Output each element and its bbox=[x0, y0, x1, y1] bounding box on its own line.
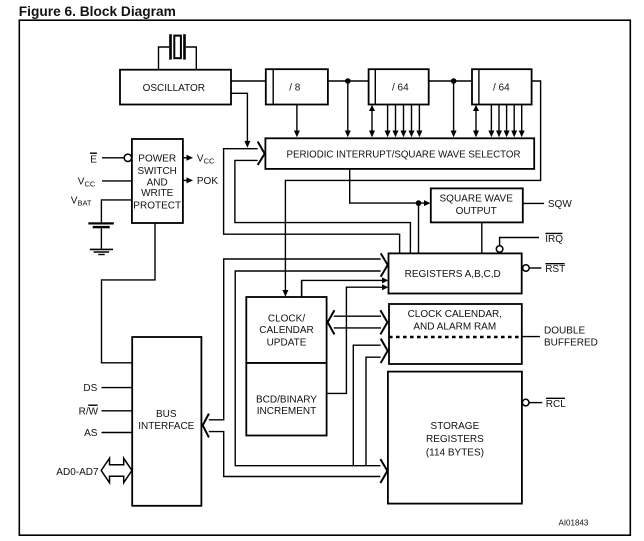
update to ram bidirectional arrows bbox=[328, 310, 335, 334]
svg-text:CLOCK/: CLOCK/ bbox=[268, 314, 305, 325]
svg-text:WRITE: WRITE bbox=[141, 188, 174, 199]
wire bcd increment to registers arrow 2 bbox=[327, 287, 384, 393]
crystal Y1 bbox=[169, 34, 186, 59]
svg-text:DS: DS bbox=[83, 383, 97, 394]
svg-text:CLOCK CALENDAR,: CLOCK CALENDAR, bbox=[408, 309, 502, 320]
wire node B drop to selector bbox=[453, 81, 455, 133]
oscillator box bbox=[120, 70, 231, 105]
svg-text:SWITCH: SWITCH bbox=[137, 166, 176, 177]
wire /64 first outputs to selector (5 lines) bbox=[385, 105, 423, 138]
wire into registers lower from bus interface bbox=[235, 271, 380, 466]
svg-text:AD0-AD7: AD0-AD7 bbox=[56, 467, 99, 478]
svg-text:RCL: RCL bbox=[546, 399, 566, 410]
svg-text:/ 64: / 64 bbox=[392, 83, 409, 94]
wire /64 second to selector wrap (right side, down, into clock/calendar update) bbox=[285, 81, 540, 293]
svg-text:PROTECT: PROTECT bbox=[133, 200, 181, 211]
battery B1 bbox=[88, 222, 113, 228]
wire /64 second outputs to selector (5 lines) bbox=[488, 105, 524, 138]
node junction dot B bbox=[451, 78, 457, 84]
wire /64 to /64 bbox=[429, 80, 472, 82]
power switch and write protect box U1 bbox=[132, 139, 183, 223]
svg-text:SQW: SQW bbox=[548, 199, 572, 210]
dashed line double buffer split bbox=[389, 336, 522, 338]
pin RST wire and circle bbox=[523, 265, 530, 272]
wire square wave output to registers bbox=[481, 222, 483, 253]
svg-text:AND ALARM RAM: AND ALARM RAM bbox=[413, 321, 496, 332]
svg-text:REGISTERS: REGISTERS bbox=[426, 434, 484, 445]
svg-text:DOUBLE: DOUBLE bbox=[544, 325, 585, 336]
pin POK output arrow bbox=[183, 179, 187, 181]
svg-text:PERIODIC INTERRUPT/SQUARE WAVE: PERIODIC INTERRUPT/SQUARE WAVE SELECTOR bbox=[287, 149, 521, 160]
wire VBAT to box bbox=[101, 200, 131, 222]
square wave output box bbox=[431, 188, 523, 222]
svg-text:OSCILLATOR: OSCILLATOR bbox=[143, 83, 205, 94]
svg-text:IRQ: IRQ bbox=[545, 234, 563, 245]
registers A,B,C,D box bbox=[389, 253, 522, 293]
wire crystal right to oscillator bbox=[186, 47, 197, 70]
svg-text:INCREMENT: INCREMENT bbox=[257, 406, 316, 417]
svg-text:AI01843: AI01843 bbox=[559, 519, 589, 528]
wire into ram lower from storage bus bbox=[353, 345, 380, 466]
node junction dot C bbox=[416, 200, 422, 206]
svg-text:E: E bbox=[90, 154, 97, 165]
clock calendar and alarm ram box bbox=[389, 304, 522, 364]
ram lower-left big chevron input bbox=[381, 339, 388, 363]
wire into selector lower / from registers bbox=[235, 160, 411, 253]
wire battery to ground bbox=[100, 228, 102, 249]
AD0-AD7 bidirectional bus arrow bbox=[101, 458, 132, 483]
svg-text:BUS: BUS bbox=[156, 409, 177, 420]
wire into registers upper from bus interface bbox=[209, 259, 381, 420]
svg-text:INTERFACE: INTERFACE bbox=[138, 421, 194, 432]
svg-text:AND: AND bbox=[147, 178, 168, 189]
wire power switch to bus interface bbox=[102, 223, 156, 363]
divider /64 box (first) bbox=[369, 69, 429, 104]
bcd/binary increment box bbox=[246, 363, 326, 436]
pin RCL wire and circle bbox=[522, 399, 529, 406]
ground bbox=[90, 249, 113, 254]
registers left input big chevron bbox=[381, 253, 388, 276]
wire registers to update (line into update top) bbox=[301, 280, 303, 297]
pin SQW bbox=[523, 202, 544, 204]
wire /64 first bidirectional arrow to selector bbox=[371, 109, 373, 134]
svg-text:OUTPUT: OUTPUT bbox=[456, 206, 497, 217]
svg-text:SQUARE WAVE: SQUARE WAVE bbox=[440, 194, 514, 205]
svg-text:RST: RST bbox=[545, 264, 565, 275]
svg-text:POK: POK bbox=[197, 176, 218, 187]
wire bus interface to storage lower bbox=[209, 432, 380, 477]
wire /64 second bidirectional arrow to selector bbox=[475, 109, 477, 134]
svg-text:UPDATE: UPDATE bbox=[267, 337, 307, 348]
svg-text:/ 64: / 64 bbox=[493, 83, 510, 94]
wire /8 output down to selector bbox=[296, 105, 298, 134]
selector left input big chevron bbox=[258, 142, 265, 165]
wire E to circle bbox=[102, 157, 124, 159]
divider /64 box (second) bbox=[472, 69, 532, 104]
node junction dot A bbox=[345, 78, 351, 84]
svg-text:CALENDAR: CALENDAR bbox=[259, 325, 313, 336]
wire into ram lower 2 from storage bus bbox=[366, 357, 381, 466]
wire /8 to /64 bbox=[328, 80, 369, 82]
wire update to registers arrow 1 bbox=[302, 280, 384, 297]
wire oscillator lower output down to selector input bbox=[231, 93, 247, 142]
pin IRQ wire and circle bbox=[500, 238, 539, 246]
periodic interrupt/square wave selector box bbox=[265, 138, 534, 169]
wire node C down to registers bbox=[418, 203, 420, 253]
svg-text:STORAGE: STORAGE bbox=[431, 421, 480, 432]
wire double buffered label bbox=[522, 336, 540, 338]
svg-text:Figure 6. Block Diagram: Figure 6. Block Diagram bbox=[19, 4, 176, 19]
svg-text:(114 BYTES): (114 BYTES) bbox=[426, 447, 484, 458]
wire VCC to box bbox=[102, 180, 132, 182]
wire crystal left to oscillator bbox=[159, 47, 170, 70]
inverter circle on E input bbox=[124, 154, 131, 161]
wire node A drop to selector bbox=[347, 81, 349, 133]
svg-text:REGISTERS A,B,C,D: REGISTERS A,B,C,D bbox=[405, 269, 501, 280]
storage registers box bbox=[388, 372, 522, 504]
svg-text:BUFFERED: BUFFERED bbox=[544, 338, 598, 349]
divider /8 box bbox=[266, 69, 328, 104]
wire into selector upper (from Vcc switch node) bbox=[224, 149, 400, 254]
bus interface box bbox=[132, 337, 201, 506]
pin VCC output arrow bbox=[183, 157, 187, 159]
storage left input big chevron bbox=[380, 459, 387, 483]
wire oscillator to /8 bbox=[231, 80, 266, 82]
svg-text:/ 8: / 8 bbox=[289, 83, 301, 94]
bus interface right big chevron input bbox=[203, 414, 209, 438]
svg-text:AS: AS bbox=[84, 428, 98, 439]
svg-text:BCD/BINARY: BCD/BINARY bbox=[256, 395, 317, 406]
svg-text:POWER: POWER bbox=[138, 153, 176, 164]
svg-text:R/W: R/W bbox=[79, 406, 99, 417]
clock/calendar update box bbox=[246, 297, 326, 363]
wire selector bottom to square wave output bbox=[350, 169, 426, 203]
